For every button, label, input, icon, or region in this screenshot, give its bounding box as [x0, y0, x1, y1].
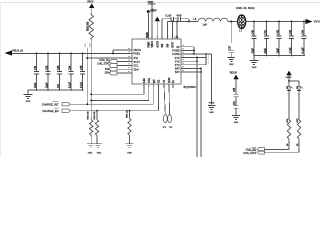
svg-text:1uH: 1uH: [203, 24, 208, 27]
wire R32 to flag CHG_STAT: [298, 141, 300, 153]
svg-text:C31: C31: [34, 65, 37, 70]
wire CHARGE_EN net: [158, 84, 160, 111]
wire SW main: [167, 22, 169, 40]
wire CHARGE_INT net: [153, 84, 155, 104]
pin stubs U4 right numbers: [182, 45, 184, 46]
svg-text:C35: C35: [80, 65, 83, 70]
wire BAT rail down: [200, 72, 202, 157]
wire pullup down: [90, 40, 92, 119]
test point TP2: [168, 84, 171, 115]
svg-text:C41: C41: [264, 29, 267, 34]
svg-text:ACOV: ACOV: [156, 41, 159, 48]
power flag LED supply: [286, 71, 291, 76]
svg-text:CHG_PG: CHG_PG: [99, 59, 109, 62]
svg-text:C32: C32: [45, 65, 48, 70]
wire SYS pins to tie bar: [181, 57, 206, 59]
capacitor C35 input bank: [82, 52, 84, 54]
net flag CHG_PG bottom right: [249, 148, 257, 151]
capacitor branch at SYS node: [230, 22, 232, 44]
net flag CHG_STAT: [109, 64, 117, 68]
svg-text:VSYS: VSYS: [314, 20, 320, 24]
svg-text:QON: QON: [169, 77, 171, 83]
svg-text:GND: GND: [26, 101, 31, 103]
ground R28: [87, 143, 95, 145]
capacitor C41 output bank: [266, 21, 268, 23]
wire L7 to VSYS arrow: [246, 21, 306, 23]
svg-text:47nF: 47nF: [177, 15, 183, 17]
wire ILIM staircase A: [143, 84, 145, 94]
svg-text:PGND: PGND: [209, 103, 215, 105]
svg-text:GND: GND: [88, 152, 93, 154]
pin stubs U4 bottom: [143, 85, 144, 86]
svg-text:R30 10k: R30 10k: [126, 109, 128, 118]
wire SYS pin6 to bar: [181, 64, 206, 66]
svg-text:0.1uF: 0.1uF: [301, 47, 304, 54]
svg-text:0.1uF: 0.1uF: [80, 81, 83, 88]
svg-text:10uF: 10uF: [276, 48, 279, 54]
wire pullup to INT net: [86, 48, 88, 105]
capacitor C33 input bank: [59, 52, 61, 54]
capacitor C40 output bank: [253, 21, 255, 23]
svg-text:C37: C37: [229, 45, 231, 50]
svg-text:GND: GND: [252, 67, 257, 69]
wire pin bottom 7 stub: [172, 84, 174, 88]
resistor R29 bottom: [96, 111, 98, 119]
svg-text:BTST: BTST: [173, 41, 175, 47]
svg-text:GND: GND: [209, 112, 214, 114]
capacitor C44 output bank: [303, 21, 305, 23]
pin stubs U4 top: [148, 36, 149, 37]
svg-text:TS: TS: [164, 80, 166, 83]
svg-text:SYS: SYS: [175, 63, 180, 67]
wire staircase B: [148, 84, 150, 100]
capacitor C43 output bank: [291, 21, 293, 23]
svg-text:C38: C38: [234, 87, 236, 92]
svg-text:U4: U4: [175, 35, 179, 39]
svg-text:SDA: SDA: [133, 67, 139, 71]
svg-text:SDA: SDA: [105, 72, 110, 75]
ground R30: [126, 143, 134, 145]
svg-text:4.7uF: 4.7uF: [289, 47, 292, 54]
svg-text:C40: C40: [251, 29, 254, 34]
ground C37: [227, 57, 235, 59]
svg-text:REGN: REGN: [230, 71, 237, 74]
svg-text:PMID: PMID: [149, 41, 151, 47]
wire EP to PGND tie: [181, 46, 194, 48]
power flag PMID arrow: [155, 17, 160, 22]
wire VBUS bus: [12, 52, 132, 54]
wire top pin 7: [176, 22, 178, 40]
svg-text:R28 10k: R28 10k: [88, 110, 90, 119]
svg-text:PSEL: PSEL: [133, 52, 141, 56]
svg-text:100R, 3A, 30mΩ: 100R, 3A, 30mΩ: [236, 7, 255, 10]
svg-text:CHARGE_EN: CHARGE_EN: [42, 109, 58, 113]
svg-text:EP: EP: [176, 45, 180, 49]
ground input bank: [27, 90, 29, 94]
svg-text:0.1uF: 0.1uF: [68, 81, 71, 88]
net flag CHG_PG: [109, 60, 117, 64]
wire PGND pin2: [181, 49, 194, 51]
svg-text:CHG_STAT: CHG_STAT: [243, 152, 256, 155]
net VSYS output arrow: [306, 19, 313, 24]
wire LED tee: [288, 80, 290, 82]
wire R31 to flag CHG_PG: [288, 141, 290, 150]
svg-text:GND: GND: [127, 152, 132, 154]
wire SYS rail down: [196, 61, 198, 157]
svg-text:C34: C34: [68, 65, 71, 70]
svg-text:PGND: PGND: [172, 52, 180, 56]
svg-text:22uF: 22uF: [251, 48, 254, 54]
svg-text:SYS: SYS: [175, 56, 180, 60]
wire PGND to ground: [181, 53, 212, 55]
svg-text:VBUS: VBUS: [87, 0, 94, 3]
capacitor C32 input bank: [47, 52, 49, 54]
svg-text:BAT: BAT: [175, 67, 180, 71]
svg-text:INT: INT: [154, 79, 156, 83]
svg-text:PGND: PGND: [172, 49, 180, 53]
svg-text:VBUS: VBUS: [150, 10, 157, 12]
svg-text:C42: C42: [276, 29, 279, 34]
svg-text:BAT: BAT: [175, 70, 180, 74]
svg-text:ILIM: ILIM: [144, 78, 146, 83]
svg-text:1uF: 1uF: [57, 83, 60, 88]
pin stubs U4 left: [127, 49, 133, 51]
ground REGN: [232, 115, 240, 117]
capacitor C39: [233, 105, 238, 107]
svg-text:GND: GND: [229, 64, 234, 66]
svg-text:VBUS: VBUS: [152, 41, 154, 48]
wire output bank rail: [254, 55, 304, 57]
resistor R30 bottom: [129, 111, 131, 117]
net flag CHG_STAT bottom right: [257, 151, 265, 155]
svg-text:OTG: OTG: [149, 78, 151, 83]
svg-text:C44: C44: [301, 29, 304, 34]
svg-text:SYS: SYS: [175, 59, 180, 63]
capacitor C42 output bank: [278, 21, 280, 23]
svg-text:CHARGE_INT: CHARGE_INT: [42, 102, 59, 106]
svg-text:C43: C43: [289, 29, 292, 34]
IC U4 BQ25890 body: [132, 39, 181, 84]
capacitor C36 bootstrap branch top rail: [162, 18, 171, 20]
svg-text:10uF: 10uF: [45, 82, 48, 88]
svg-text:GND: GND: [234, 122, 239, 124]
svg-text:BQ25890: BQ25890: [184, 85, 197, 89]
wire cap bank gnd rail: [28, 89, 83, 91]
ground output bank: [253, 56, 255, 61]
svg-text:10uF: 10uF: [34, 82, 37, 88]
wire SW net to cap branch: [161, 19, 163, 39]
svg-text:SCL: SCL: [105, 68, 110, 71]
svg-text:CE: CE: [159, 79, 161, 83]
test point TP1: [164, 84, 165, 115]
wire BAT pins tie: [181, 67, 201, 69]
net flag SDA: [109, 71, 117, 75]
wire PSEL stub: [113, 49, 132, 51]
capacitor C31 input bank: [36, 52, 38, 54]
wire L6 to L7: [228, 21, 237, 23]
node SYS tie bar: [205, 53, 207, 65]
svg-text:GND: GND: [97, 152, 102, 154]
net flag SCL: [109, 67, 117, 71]
net VBUS_IN input arrow: [5, 50, 13, 55]
ground R29: [94, 143, 102, 145]
svg-text:VBUS_IN: VBUS_IN: [12, 49, 23, 53]
svg-text:C33: C33: [57, 65, 60, 70]
svg-text:R29 10k: R29 10k: [94, 110, 96, 119]
capacitor C34 input bank: [70, 52, 72, 54]
power bar VBUS mid: [147, 11, 156, 13]
svg-text:22uF: 22uF: [264, 48, 267, 54]
svg-text:CHG_STAT: CHG_STAT: [97, 63, 110, 66]
